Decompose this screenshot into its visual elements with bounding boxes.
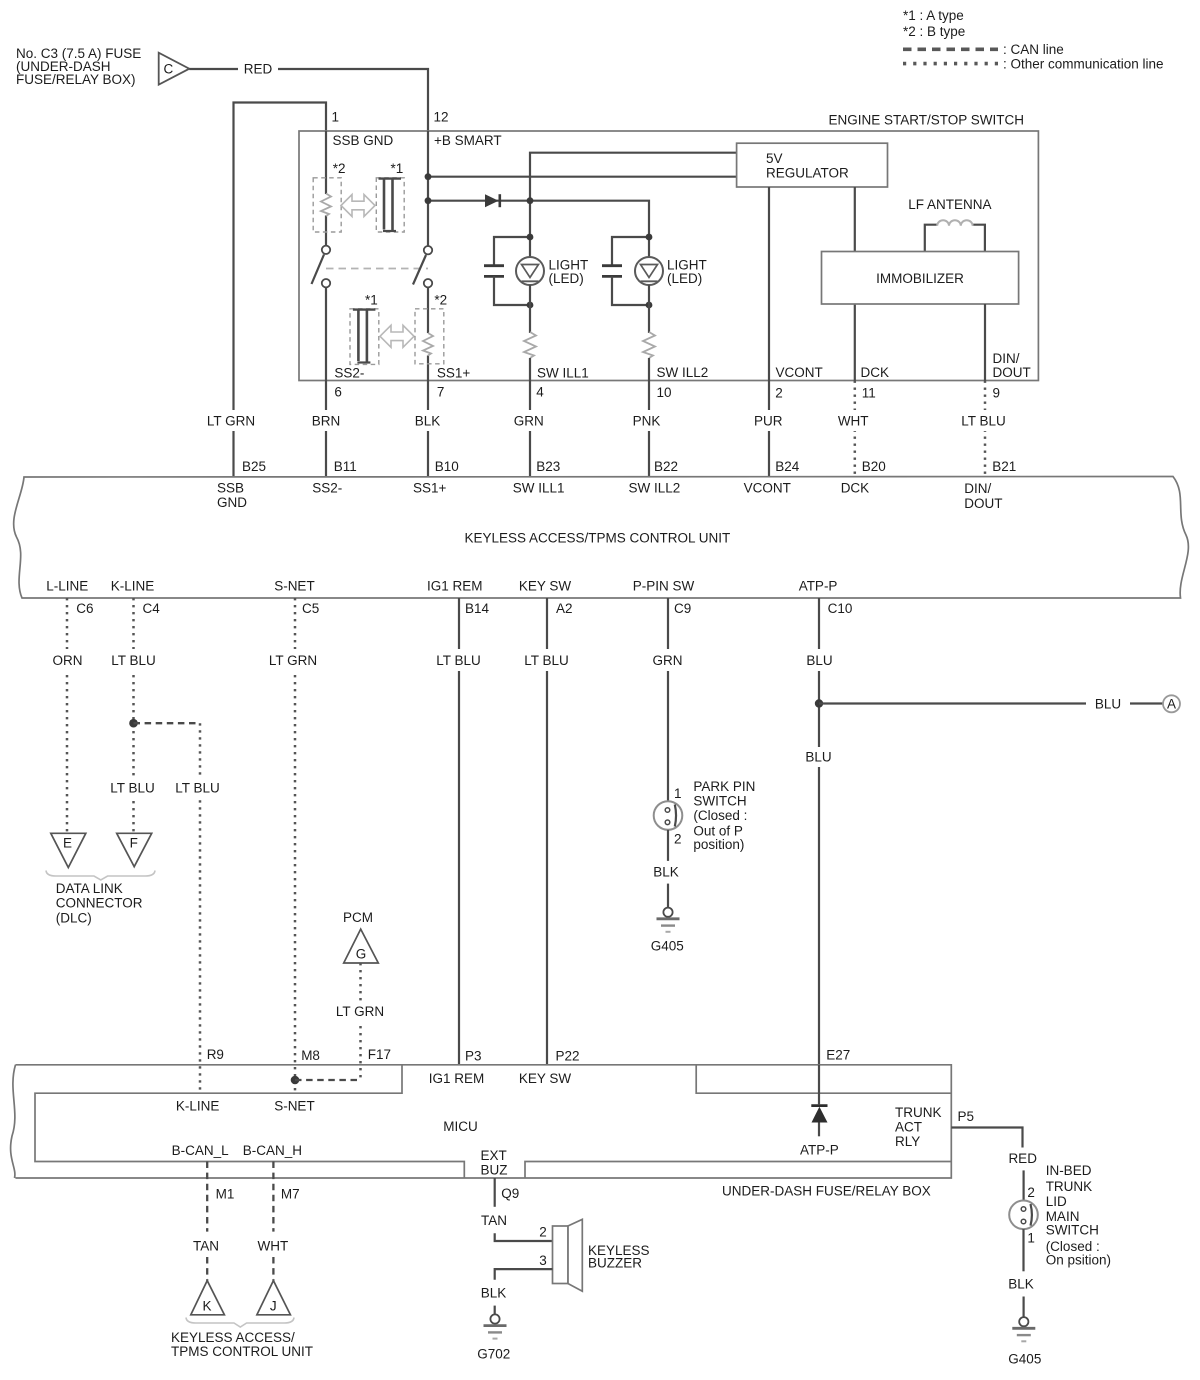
svg-text:12: 12 [434, 110, 449, 125]
LED1 (LIGHT) [516, 237, 588, 286]
svg-text:BLU: BLU [805, 750, 831, 765]
svg-text:B20: B20 [862, 459, 886, 474]
svg-text:*2: *2 [434, 293, 447, 308]
DLC bracket [46, 871, 155, 881]
svg-text:Q9: Q9 [501, 1186, 519, 1201]
wire DIN/DOUT (pin 9) [984, 304, 986, 381]
connector F triangle [117, 833, 152, 866]
replace-arrow (bottom) [380, 325, 414, 347]
wire SSB GND (pin 1 to B25) [234, 103, 327, 478]
connector C (fuse feed) [159, 53, 190, 85]
svg-text:RED: RED [244, 62, 273, 77]
junction K-LINE branch [129, 719, 138, 728]
svg-text:RED: RED [1008, 1151, 1037, 1166]
resistor SW ILL1 [524, 285, 536, 477]
ENGINE START/STOP SWITCH box [299, 131, 1038, 381]
svg-text:C: C [164, 62, 174, 77]
svg-text:ATP-P: ATP-P [800, 1142, 839, 1157]
svg-text:LT BLU: LT BLU [111, 653, 156, 668]
svg-text:LT GRN: LT GRN [207, 414, 255, 429]
connector J triangle [257, 1281, 291, 1315]
svg-text:TPMS CONTROL UNIT: TPMS CONTROL UNIT [171, 1344, 313, 1359]
wire VCONT (pin 2) [768, 187, 770, 477]
svg-text:SSB: SSB [217, 480, 244, 495]
svg-text:B23: B23 [536, 459, 560, 474]
svg-text:BRN: BRN [312, 414, 341, 429]
svg-text:UNDER-DASH FUSE/RELAY BOX: UNDER-DASH FUSE/RELAY BOX [722, 1184, 931, 1199]
wire color label BLK [407, 410, 449, 431]
svg-text:LID: LID [1046, 1194, 1067, 1209]
svg-text:P22: P22 [556, 1049, 580, 1064]
svg-text:BLK: BLK [415, 414, 441, 429]
svg-text:SW ILL1: SW ILL1 [513, 480, 565, 495]
wire S-NET LT GRN dotted [294, 598, 297, 1093]
bus wire +B to 5V regulator (upper) [428, 176, 737, 178]
svg-text:F: F [130, 835, 138, 850]
svg-text:GRN: GRN [514, 414, 544, 429]
wire +B SMART column (pin 12 / SS1+ pin 7) [427, 131, 429, 246]
svg-text:+B SMART: +B SMART [434, 133, 502, 148]
wire RED (fuse to +B SMART) [189, 69, 428, 131]
ground G702 [477, 1314, 510, 1361]
svg-text:LT BLU: LT BLU [175, 781, 220, 796]
svg-text:EXT: EXT [481, 1148, 507, 1163]
junction ATP-P / terminal A line [815, 699, 823, 707]
svg-text:(LED): (LED) [549, 271, 584, 286]
svg-text:BLK: BLK [653, 865, 679, 880]
svg-text:M7: M7 [281, 1186, 300, 1201]
wire color label PUR [747, 410, 789, 431]
svg-text:: CAN line: : CAN line [1003, 42, 1064, 57]
svg-text:ENGINE START/STOP SWITCH: ENGINE START/STOP SWITCH [828, 113, 1024, 128]
legend CAN line sample [903, 47, 998, 51]
capacitor C (LED2 parallel) [602, 237, 649, 305]
svg-text:IG1 REM: IG1 REM [429, 1071, 485, 1086]
svg-text:ATP-P: ATP-P [799, 578, 838, 593]
LED2 (LIGHT) [635, 237, 707, 286]
svg-text:LT BLU: LT BLU [524, 653, 569, 668]
svg-text:*2: *2 [333, 161, 346, 176]
wire B-CAN_H dashed M7 [272, 1162, 274, 1232]
svg-text:LT BLU: LT BLU [436, 653, 481, 668]
junction LED1 column/diode row [527, 197, 534, 204]
svg-text:SW ILL2: SW ILL2 [657, 365, 709, 380]
svg-text:KEYLESS ACCESS/TPMS CONTROL UN: KEYLESS ACCESS/TPMS CONTROL UNIT [465, 531, 731, 546]
svg-text:G702: G702 [477, 1347, 510, 1362]
wire LT GRN dotted (PCM to F17) [359, 963, 362, 1080]
wire color label GRN [507, 410, 551, 431]
svg-text:IMMOBILIZER: IMMOBILIZER [876, 271, 964, 286]
svg-text:(LED): (LED) [667, 271, 702, 286]
svg-text:E27: E27 [826, 1048, 850, 1063]
svg-text:K-LINE: K-LINE [111, 578, 155, 593]
svg-text:GRN: GRN [653, 653, 683, 668]
svg-text:RLY: RLY [895, 1134, 920, 1149]
svg-text:K: K [202, 1299, 211, 1314]
switch contact alt A-type *1 (bottom) [350, 293, 379, 365]
svg-text:C4: C4 [143, 601, 161, 616]
svg-text:B25: B25 [242, 459, 266, 474]
wire EXT BUZ Q9 TAN [494, 1178, 496, 1207]
svg-text:B11: B11 [334, 459, 357, 474]
wire color label BRN [305, 410, 347, 431]
svg-text:4: 4 [536, 384, 544, 399]
wire color label PNK [626, 410, 669, 431]
svg-text:*2 : B type: *2 : B type [903, 24, 965, 39]
junction LED1 top [527, 234, 534, 241]
svg-text:KEYLESS ACCESS/: KEYLESS ACCESS/ [171, 1330, 295, 1345]
svg-text:1: 1 [674, 786, 682, 801]
switch blade right (SS1+) [413, 246, 432, 287]
svg-text:(Closed :: (Closed : [693, 808, 747, 823]
svg-text:WHT: WHT [258, 1238, 289, 1253]
svg-text:P-PIN SW: P-PIN SW [633, 578, 695, 593]
svg-text:VCONT: VCONT [744, 481, 791, 496]
junction +B/diode row [425, 197, 432, 204]
svg-text:C5: C5 [302, 601, 319, 616]
wire BLU to terminal A [819, 702, 1163, 704]
svg-text:TAN: TAN [481, 1213, 507, 1228]
switch contact alt A-type *1 (top) [376, 161, 404, 232]
svg-text:G: G [356, 946, 367, 961]
svg-text:SW ILL1: SW ILL1 [537, 366, 589, 381]
svg-text:SWITCH: SWITCH [1046, 1223, 1099, 1238]
svg-text:CONNECTOR: CONNECTOR [56, 896, 143, 911]
svg-text:2: 2 [674, 832, 682, 847]
svg-text:On psition): On psition) [1046, 1252, 1111, 1267]
wire dashed S-NET to F17 [295, 1079, 361, 1081]
svg-text:PUR: PUR [754, 414, 783, 429]
LF ANTENNA L1 [908, 197, 991, 252]
legend other communication line sample [903, 62, 998, 66]
junction LED2 top [646, 234, 653, 241]
IN-BED TRUNK LID MAIN SWITCH [1009, 1201, 1038, 1230]
svg-text:2: 2 [1027, 1185, 1035, 1200]
svg-text:MAIN: MAIN [1046, 1209, 1080, 1224]
svg-text:9: 9 [993, 385, 1001, 400]
svg-text:SWITCH: SWITCH [693, 794, 746, 809]
svg-text:K-LINE: K-LINE [176, 1099, 220, 1114]
svg-text:DCK: DCK [841, 481, 870, 496]
svg-text:BUZ: BUZ [481, 1163, 508, 1178]
wire IG1 REM LT BLU [458, 598, 460, 1065]
wire B-CAN_L dashed M1 [206, 1162, 208, 1232]
svg-text:L-LINE: L-LINE [46, 578, 88, 593]
connector E triangle [51, 833, 86, 867]
svg-text:B10: B10 [435, 459, 459, 474]
svg-text:TRUNK: TRUNK [1046, 1179, 1093, 1194]
wire K-LINE LT BLU dotted [132, 598, 135, 833]
svg-text:ORN: ORN [53, 653, 83, 668]
switch contact alt B-type *2 (bottom, resistive) [415, 293, 447, 364]
svg-text:6: 6 [334, 384, 342, 399]
svg-text:P5: P5 [958, 1109, 975, 1124]
svg-text:J: J [270, 1299, 277, 1314]
junction S-NET / F17 [291, 1076, 300, 1085]
replace-arrow (top) [341, 195, 375, 217]
svg-text:*1: *1 [391, 161, 404, 176]
svg-text:1: 1 [332, 110, 340, 125]
outer box left tear [11, 1065, 16, 1178]
connector G triangle (PCM) [344, 929, 379, 963]
svg-text:B14: B14 [465, 601, 490, 616]
wire SS2- column (pin 1 / pin 6) [325, 131, 327, 194]
svg-text:F17: F17 [368, 1047, 391, 1062]
svg-text:G405: G405 [651, 938, 684, 953]
svg-text:M8: M8 [301, 1048, 320, 1063]
svg-text:R9: R9 [207, 1047, 224, 1062]
wire diode row [428, 201, 649, 237]
svg-text:*1: *1 [365, 293, 378, 308]
svg-text:A: A [1167, 696, 1176, 711]
svg-text:5V: 5V [766, 151, 783, 166]
wire P-PIN SW GRN [667, 598, 669, 802]
svg-text:C10: C10 [828, 601, 853, 616]
svg-text:PNK: PNK [633, 414, 661, 429]
UNDER-DASH FUSE/RELAY BOX outer box [16, 1065, 952, 1178]
bus wire LED feed to 5V regulator [530, 153, 737, 237]
wire color label LT GRN [202, 410, 265, 431]
svg-text:2: 2 [775, 385, 783, 400]
wire P5 RED [951, 1128, 1022, 1148]
svg-text:C6: C6 [76, 601, 93, 616]
wire color label WHT [831, 410, 876, 431]
svg-text:S-NET: S-NET [274, 1099, 315, 1114]
svg-text:BLU: BLU [1095, 697, 1121, 712]
connector K triangle [191, 1281, 225, 1315]
MICU box [35, 1065, 464, 1178]
wire KEY SW LT BLU [546, 598, 548, 1065]
svg-text:1: 1 [1027, 1230, 1035, 1245]
switch blade left (SS2-) [312, 246, 331, 288]
svg-text:3: 3 [539, 1253, 547, 1268]
svg-text:B24: B24 [775, 459, 800, 474]
wire LT BLU dotted branch down to R9 [199, 723, 202, 1093]
svg-text:LF ANTENNA: LF ANTENNA [908, 197, 991, 212]
svg-text:LT BLU: LT BLU [110, 781, 155, 796]
terminal A [1163, 695, 1180, 712]
svg-text:LT BLU: LT BLU [961, 414, 1006, 429]
wire BLK (in-bed switch to ground) [1022, 1229, 1024, 1271]
svg-text:B-CAN_L: B-CAN_L [172, 1143, 230, 1158]
svg-text:11: 11 [862, 385, 876, 400]
svg-text:IN-BED: IN-BED [1046, 1163, 1092, 1178]
svg-text:BLU: BLU [806, 653, 832, 668]
svg-text:WHT: WHT [838, 414, 869, 429]
svg-text:A2: A2 [556, 601, 573, 616]
KEYLESS ACCESS/TPMS CONTROL UNIT band [14, 477, 1189, 599]
wire color label LT BLU [953, 410, 1014, 431]
svg-text:LT GRN: LT GRN [336, 1004, 384, 1019]
junction LED1 bottom [527, 302, 534, 309]
svg-text:TRUNK: TRUNK [895, 1105, 942, 1120]
svg-text:S-NET: S-NET [274, 578, 315, 593]
ground G405 (in-bed switch) [1008, 1317, 1041, 1366]
svg-text:SS1+: SS1+ [413, 480, 447, 495]
svg-text:: Other communication line: : Other communication line [1003, 56, 1164, 71]
svg-text:10: 10 [657, 385, 672, 400]
svg-text:LT GRN: LT GRN [269, 653, 317, 668]
resistor SW ILL2 [643, 285, 655, 477]
svg-text:SS2-: SS2- [334, 366, 364, 381]
junction LED2 bottom [646, 302, 653, 309]
svg-text:BUZZER: BUZZER [588, 1256, 642, 1271]
svg-text:PARK PIN: PARK PIN [693, 779, 755, 794]
svg-text:DIN/: DIN/ [993, 351, 1020, 366]
KEYLESS BUZZER speaker [553, 1219, 650, 1291]
svg-text:FUSE/RELAY BOX): FUSE/RELAY BOX) [16, 72, 136, 87]
svg-text:G405: G405 [1008, 1351, 1041, 1366]
svg-text:MICU: MICU [443, 1119, 478, 1134]
wire DCK upper (regulator to immobilizer) [854, 187, 856, 252]
svg-text:DCK: DCK [861, 365, 890, 380]
svg-text:M1: M1 [216, 1186, 235, 1201]
diode ATP-P (trunk relay) [800, 1065, 839, 1158]
wire BLK buzzer to ground [495, 1269, 553, 1280]
keyless bracket [186, 1318, 294, 1328]
svg-text:SS1+: SS1+ [437, 366, 471, 381]
IMMOBILIZER unit [822, 252, 1019, 305]
svg-text:KEY SW: KEY SW [519, 1071, 572, 1086]
wire ATP-P BLU [818, 598, 820, 1065]
svg-text:SSB GND: SSB GND [333, 133, 394, 148]
5V REGULATOR U [737, 143, 888, 187]
svg-text:BLK: BLK [481, 1286, 507, 1301]
svg-text:B21: B21 [992, 459, 1016, 474]
svg-text:SW ILL2: SW ILL2 [629, 480, 681, 495]
svg-text:B-CAN_H: B-CAN_H [243, 1143, 302, 1158]
svg-text:GND: GND [217, 495, 247, 510]
wire DCK lower (pin 11) [854, 304, 856, 381]
svg-text:DIN/: DIN/ [964, 481, 991, 496]
capacitor C (LED1 parallel) [484, 237, 530, 305]
svg-text:PCM: PCM [343, 910, 373, 925]
svg-text:SS2-: SS2- [312, 480, 342, 495]
ground G405 (park pin) [651, 908, 684, 954]
svg-text:E: E [63, 835, 72, 850]
svg-text:DOUT: DOUT [993, 365, 1031, 380]
svg-text:ACT: ACT [895, 1120, 922, 1135]
svg-text:(DLC): (DLC) [56, 910, 92, 925]
svg-text:IG1 REM: IG1 REM [427, 578, 483, 593]
svg-text:Out of P: Out of P [693, 823, 743, 838]
svg-text:C9: C9 [674, 601, 691, 616]
wire branch dashed to R9 [134, 722, 201, 724]
svg-text:B22: B22 [654, 459, 678, 474]
mechanical link dashed [326, 268, 428, 270]
svg-text:BLK: BLK [1008, 1277, 1034, 1292]
wire L-LINE ORN dotted [66, 598, 69, 833]
svg-text:REGULATOR: REGULATOR [766, 165, 849, 180]
svg-text:*1 : A type: *1 : A type [903, 8, 964, 23]
wire BLK (park pin switch to ground) [667, 830, 669, 861]
svg-text:KEY SW: KEY SW [519, 578, 572, 593]
svg-text:VCONT: VCONT [776, 365, 823, 380]
PARK PIN SWITCH [654, 801, 683, 830]
svg-text:position): position) [693, 837, 744, 852]
diode D (LED feed) [485, 194, 500, 207]
switch contact alt B-type *2 (top, resistive) [313, 161, 345, 232]
junction +B/bus [425, 173, 432, 180]
svg-text:7: 7 [437, 384, 445, 399]
svg-text:TAN: TAN [193, 1238, 219, 1253]
svg-text:DATA LINK: DATA LINK [56, 881, 123, 896]
svg-text:2: 2 [539, 1225, 547, 1240]
svg-text:P3: P3 [465, 1049, 482, 1064]
svg-text:DOUT: DOUT [964, 496, 1002, 511]
